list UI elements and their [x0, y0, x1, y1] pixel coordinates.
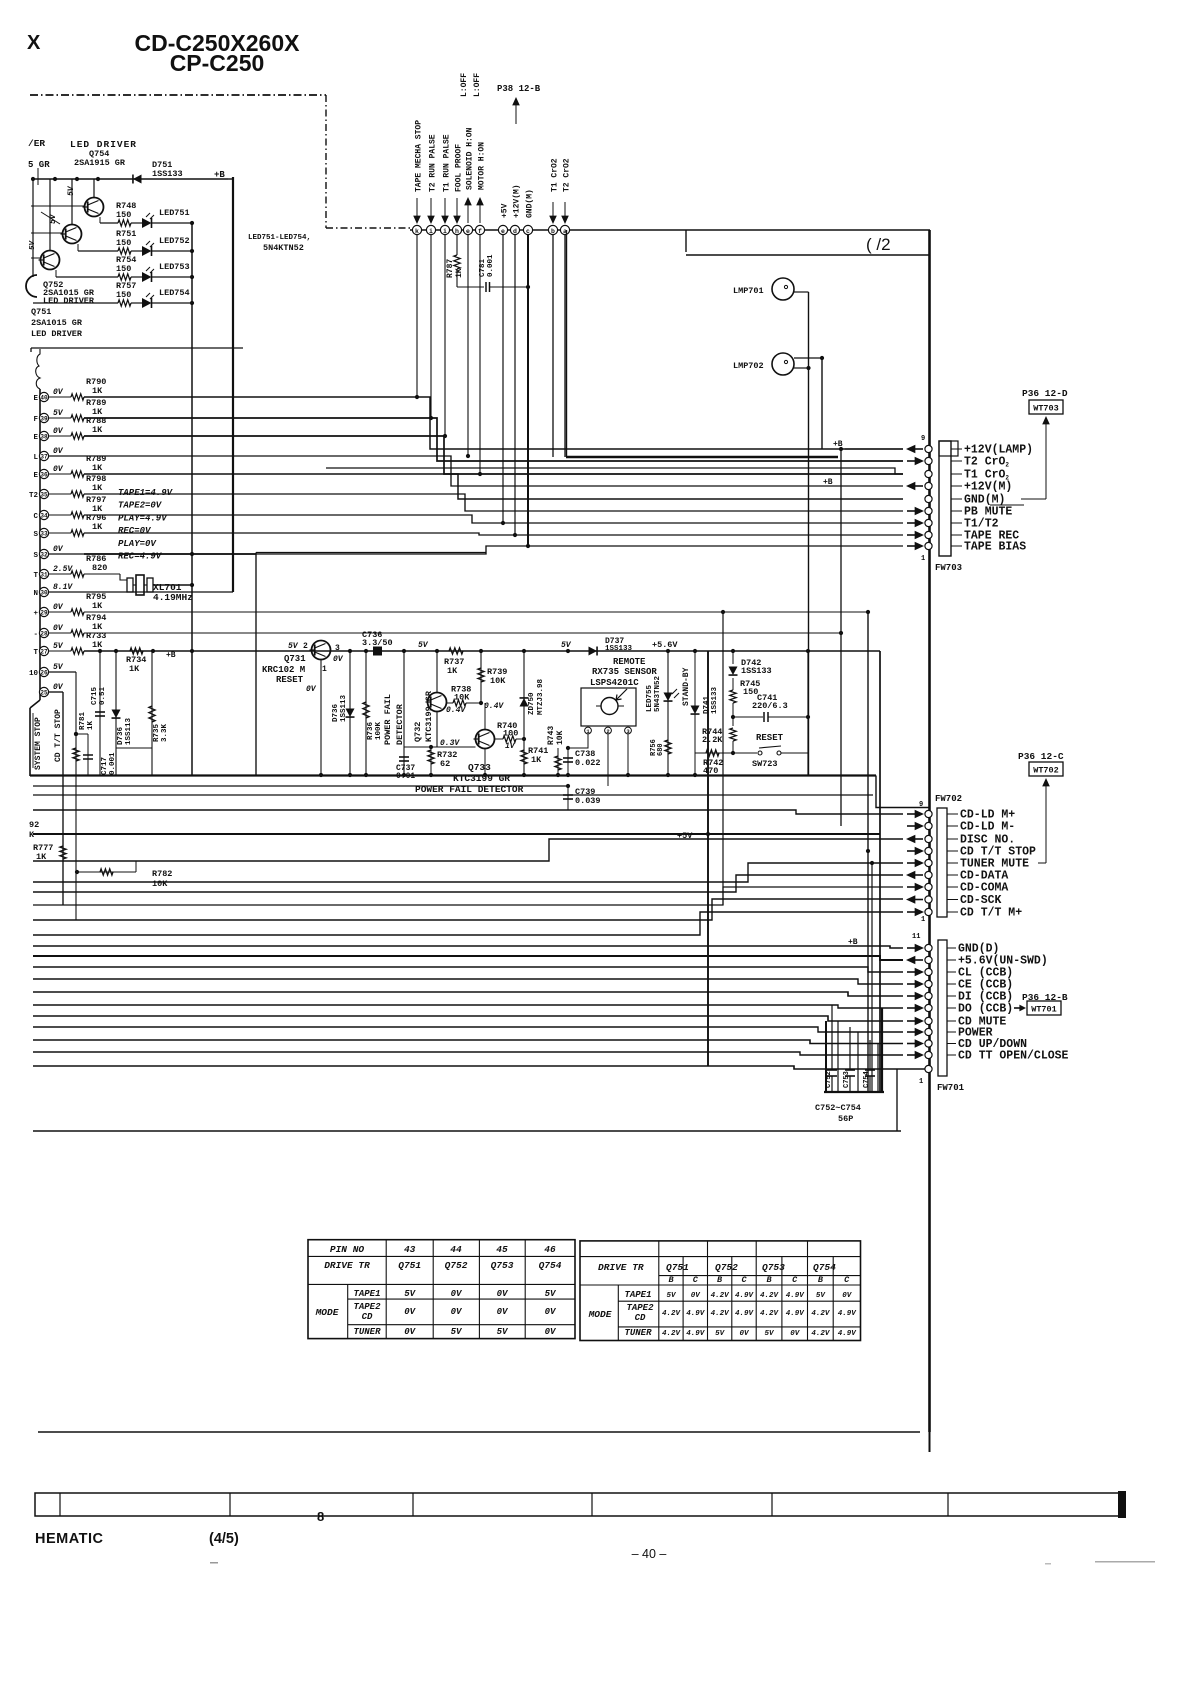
pin T1 RUN PALSE connector circle: [440, 225, 449, 234]
svg-text:P36 12-D: P36 12-D: [1022, 388, 1068, 399]
wire line y861 to FW702: [33, 839, 903, 861]
svg-text:LED754: LED754: [159, 288, 190, 298]
wire capacitor block bottom y1092: [824, 1091, 884, 1093]
svg-text:L:OFF: L:OFF: [460, 73, 469, 97]
svg-text:4.19MHz: 4.19MHz: [153, 592, 193, 603]
svg-text:150: 150: [116, 238, 131, 248]
svg-text:LED DRIVER: LED DRIVER: [31, 329, 83, 339]
wire pin26 drop: [74, 732, 78, 736]
wire top dash-dot boundary: [30, 94, 326, 96]
svg-text:0.001: 0.001: [487, 254, 495, 277]
svg-text:0V: 0V: [545, 1327, 557, 1337]
svg-text:P38 12-B: P38 12-B: [497, 84, 541, 94]
svg-text:0V: 0V: [53, 624, 64, 633]
svg-text:5V: 5V: [715, 1330, 726, 1338]
svg-text:1K: 1K: [92, 483, 103, 493]
svg-text:LSPS4201C: LSPS4201C: [590, 678, 639, 688]
svg-text:5V: 5V: [497, 1327, 509, 1337]
svg-text:R787: R787: [446, 259, 455, 278]
wire +5V line y834 thick: [33, 833, 880, 835]
wire LED754 to collector bus: [152, 302, 192, 304]
connector FW702 body: [937, 808, 947, 917]
svg-text:C: C: [844, 1275, 850, 1285]
svg-text:0V: 0V: [53, 447, 64, 456]
header box ( /2: [685, 230, 687, 252]
wire sensor pin2: [607, 734, 609, 786]
svg-text:+: +: [33, 610, 38, 618]
resistor R798 1K: [49, 493, 71, 495]
resistor R795 1K: [49, 611, 71, 613]
pin 27 IC: [39, 646, 48, 655]
svg-text:0V: 0V: [53, 388, 64, 397]
table transistor-voltage right: [580, 1241, 861, 1341]
svg-text:R782: R782: [152, 869, 172, 879]
resistor R733 1K: [49, 650, 71, 652]
wire +B vertical x233: [232, 177, 234, 592]
transistor Q752 2SA1015: [49, 179, 51, 250]
svg-text:1K: 1K: [129, 664, 140, 674]
wire +B rail y179: [32, 178, 228, 180]
svg-text:100K: 100K: [375, 721, 383, 740]
wire bus y905: [33, 887, 903, 905]
svg-text:0V: 0V: [53, 683, 64, 692]
LED755 5N43TN52: [667, 651, 669, 775]
svg-text:1: 1: [919, 1078, 923, 1086]
resistor R737 1K: [449, 648, 463, 654]
pin +12V(M) connector circle: [510, 225, 519, 234]
svg-text:Q752: Q752: [715, 1262, 738, 1273]
svg-text:0V: 0V: [333, 655, 344, 664]
svg-text:1K: 1K: [92, 522, 103, 532]
pin FW702 CD-SCK: [925, 896, 932, 903]
diode D742 1SS133: [732, 651, 734, 664]
svg-text:29: 29: [40, 610, 48, 617]
wire bus y967: [33, 967, 903, 972]
svg-text:0V: 0V: [739, 1330, 750, 1338]
resistor R741 1K: [521, 750, 527, 764]
wire bus y892: [33, 875, 903, 892]
svg-text:CD T/T STOP: CD T/T STOP: [54, 709, 63, 762]
svg-text:0V: 0V: [53, 603, 64, 612]
pin FW703-2 TAPE REC: [925, 531, 932, 538]
pin FW703-9 +12V(LAMP): [925, 445, 932, 452]
wire Q731 emitter drop: [320, 660, 322, 775]
svg-text:i: i: [429, 228, 433, 235]
svg-text:C753: C753: [843, 1071, 851, 1088]
svg-text:C: C: [741, 1275, 747, 1285]
svg-text:820: 820: [92, 563, 107, 573]
wire vertical x256: [255, 553, 257, 776]
wire IC pin row y397 to FW703 row y449: [84, 397, 903, 449]
svg-text:Q754: Q754: [539, 1260, 562, 1271]
svg-text:DRIVE TR: DRIVE TR: [324, 1260, 370, 1271]
sensor pins 1 2 3: [585, 727, 592, 734]
wire T1 RUN PALSE drop x445: [444, 235, 446, 436]
LED LED754: [131, 302, 142, 304]
svg-text:B: B: [766, 1275, 771, 1285]
svg-text:4.9V: 4.9V: [735, 1310, 755, 1318]
svg-text:4.2V: 4.2V: [662, 1330, 682, 1338]
svg-text:0.4V: 0.4V: [446, 706, 466, 715]
svg-text:0V: 0V: [691, 1292, 702, 1300]
pin FW702 TUNER MUTE: [925, 859, 932, 866]
svg-text:TAPE2=0V: TAPE2=0V: [118, 501, 163, 511]
svg-text:c: c: [526, 228, 530, 235]
svg-text:C: C: [693, 1275, 699, 1285]
svg-text:0V: 0V: [53, 465, 64, 474]
resistor R734 1K: [130, 648, 143, 654]
pin 40 IC: [39, 392, 48, 401]
pin 30 IC: [39, 587, 48, 596]
svg-text:Q753: Q753: [762, 1262, 785, 1273]
capacitor C781 0.001: [457, 286, 484, 288]
pin FW702 CD-LD M+: [925, 810, 932, 817]
svg-text:1K: 1K: [87, 720, 95, 730]
wire SOLENOID drop x468: [467, 235, 469, 456]
svg-text:C752: C752: [825, 1071, 833, 1088]
svg-text:38: 38: [40, 434, 48, 441]
signal arrow T2 RUN PALSE: [430, 198, 432, 220]
wire pointer to Q753 base: [41, 212, 60, 224]
svg-text:CD T/T M+: CD T/T M+: [960, 907, 1022, 920]
resistor R789 1K: [49, 473, 71, 475]
wire corner x897: [896, 1069, 898, 1131]
svg-text:FOOL PROOF: FOOL PROOF: [455, 144, 464, 192]
wire main right spine x930: [928, 230, 931, 1432]
svg-text:1: 1: [921, 916, 925, 924]
pin FW702 CD T/T STOP: [925, 847, 932, 854]
wire lamp drop x822: [821, 358, 823, 449]
svg-text:TAPE2: TAPE2: [353, 1302, 381, 1312]
wire pin 25: [49, 691, 63, 693]
pin TAPE MECHA STOP connector circle: [412, 225, 421, 234]
capacitor block C752-C754: [825, 1021, 827, 1092]
svg-text:D736: D736: [332, 703, 340, 722]
pin 25 IC: [39, 687, 48, 696]
svg-text:S: S: [33, 552, 38, 560]
svg-text:LED751-LED754,: LED751-LED754,: [248, 234, 311, 242]
svg-text:35: 35: [40, 492, 48, 499]
svg-text:LED751: LED751: [159, 208, 190, 218]
wire bus y946: [33, 946, 903, 948]
svg-text:36: 36: [40, 472, 48, 479]
pin 34 IC: [39, 510, 48, 519]
svg-text:b: b: [551, 228, 555, 235]
svg-text:+B: +B: [166, 651, 176, 660]
svg-text:CD TT OPEN/CLOSE: CD TT OPEN/CLOSE: [958, 1050, 1069, 1063]
svg-text:( /2: ( /2: [866, 235, 891, 254]
svg-text:k: k: [415, 228, 419, 235]
pin FW701 CL (CCB): [925, 968, 932, 975]
transistor Q732: [428, 693, 447, 712]
svg-text:Q732: Q732: [413, 722, 423, 742]
lamp LMP702: [772, 353, 794, 375]
wire pin 30: [49, 591, 84, 593]
connector FW703 body: [939, 441, 951, 556]
tape deck box inner bottom line: [326, 468, 903, 474]
wire lamp drop x808.5 long: [808, 292, 810, 775]
svg-text:+B: +B: [848, 938, 858, 947]
svg-text:0.4V: 0.4V: [484, 702, 504, 711]
svg-text:5V: 5V: [764, 1330, 775, 1338]
pin MOTOR H:ON connector circle: [475, 225, 484, 234]
svg-text:B: B: [717, 1275, 722, 1285]
svg-text:LMP701: LMP701: [733, 286, 764, 296]
connector FW701 body: [938, 940, 947, 1076]
svg-text:0V: 0V: [790, 1330, 801, 1338]
svg-text:S: S: [33, 531, 38, 539]
wire T2 RUN PALSE drop x431: [430, 235, 432, 418]
svg-text:0.022: 0.022: [575, 758, 601, 768]
zener ZD750 MTZJ3.98: [523, 651, 525, 775]
svg-text:C: C: [33, 513, 38, 521]
wire IC pin row y418 to FW703 row y461: [84, 418, 903, 461]
svg-text:37: 37: [40, 454, 48, 461]
pin 32 IC: [39, 549, 48, 558]
svg-text:4.9V: 4.9V: [838, 1330, 858, 1338]
pin FW702 CD-LD M-: [925, 822, 932, 829]
svg-text:CD-COMA: CD-COMA: [960, 882, 1008, 895]
svg-text:TAPE1: TAPE1: [353, 1289, 380, 1299]
svg-text:+B: +B: [823, 478, 833, 487]
resistor R781 1K + capacitor C717 0.001: [75, 672, 77, 775]
wire drop x723: [722, 612, 724, 905]
pin 28 IC: [39, 628, 48, 637]
svg-text:4.9V: 4.9V: [838, 1310, 858, 1318]
svg-text:1K: 1K: [92, 640, 103, 650]
svg-text:PLAY=0V: PLAY=0V: [118, 539, 157, 549]
capacitor C715 0.51: [99, 651, 101, 775]
svg-text:5V: 5V: [666, 1292, 677, 1300]
wire drop x841: [840, 449, 842, 826]
svg-text:2SA1915 GR: 2SA1915 GR: [74, 158, 126, 168]
pin FW701 CD MUTE: [925, 1017, 932, 1024]
svg-text:CP-C250: CP-C250: [170, 50, 265, 76]
svg-text:5V: 5V: [404, 1289, 416, 1299]
resistor R742 470: [706, 750, 719, 756]
svg-text:9: 9: [921, 435, 925, 443]
wire IC pin row y554 to FW703 row y546: [84, 546, 903, 554]
diode D751 1SS133: [133, 175, 142, 184]
svg-text:L: L: [33, 454, 38, 462]
wire bus y1016: [33, 1016, 903, 1021]
resistor R788 1K: [49, 435, 71, 437]
svg-text:C752~C754: C752~C754: [815, 1103, 861, 1113]
resistor R786 820: [49, 573, 71, 575]
svg-text:F: F: [33, 416, 38, 424]
svg-text:WT703: WT703: [1033, 404, 1059, 414]
svg-text:Q751: Q751: [31, 307, 51, 317]
resistor R787 1K on FOOL PROOF drop: [456, 235, 458, 255]
svg-text:5V: 5V: [53, 409, 64, 418]
resistor R782 10K: [77, 871, 136, 873]
svg-text:0.51: 0.51: [99, 686, 107, 705]
svg-text:4.2V: 4.2V: [811, 1330, 831, 1338]
wire drop x880: [879, 651, 881, 1092]
wire bus y956: [33, 956, 903, 960]
svg-text:L:OFF: L:OFF: [473, 73, 482, 97]
svg-text:3.3K: 3.3K: [161, 723, 169, 742]
svg-text:2.2K: 2.2K: [702, 735, 723, 745]
svg-text:FW702: FW702: [935, 794, 962, 804]
diode D737 1SS133 on rail: [589, 647, 598, 656]
svg-text:32: 32: [40, 552, 48, 559]
resistor R790 1K: [49, 396, 71, 398]
svg-text:1SS113: 1SS113: [340, 694, 348, 722]
wire +12V(M) drop x515: [514, 235, 516, 535]
svg-text:TAPE MECHA STOP: TAPE MECHA STOP: [415, 120, 424, 192]
svg-text:2: 2: [303, 642, 308, 651]
wire pin26 drop to bus: [75, 775, 77, 920]
svg-text:0V: 0V: [404, 1327, 416, 1337]
wire sub-branch y748: [116, 747, 152, 749]
svg-text:+B: +B: [214, 170, 225, 180]
svg-text:MOTOR H:ON: MOTOR H:ON: [478, 142, 487, 190]
svg-text:KRC102 M: KRC102 M: [262, 665, 305, 675]
table pin-voltage left: [308, 1240, 575, 1339]
svg-text:39: 39: [40, 416, 48, 423]
svg-text:40: 40: [40, 395, 48, 402]
pin T2 CrO2 connector circle: [560, 225, 569, 234]
svg-text:5V: 5V: [288, 642, 299, 651]
resistor R745 150: [732, 678, 734, 690]
wire pin29 row y612 long: [84, 611, 868, 613]
resistor R756 680: [665, 740, 671, 754]
wire pin30 to +B vertical: [84, 591, 233, 593]
wire +5V drop x503: [502, 235, 504, 523]
pin T1 CrO2 connector circle: [548, 225, 557, 234]
svg-text:1SS133: 1SS133: [152, 169, 183, 179]
svg-text:– 40 –: – 40 –: [632, 1547, 667, 1561]
svg-text:MODE: MODE: [588, 1309, 612, 1320]
pin 31 IC: [39, 569, 48, 578]
resistor R744 2.2K: [730, 728, 736, 741]
signal arrow TAPE MECHA STOP: [416, 198, 418, 220]
capacitor C738 0.022: [567, 748, 569, 775]
svg-text:E: E: [33, 395, 38, 403]
resistor R732 62: [430, 651, 432, 775]
pin FOOL PROOF connector circle: [452, 225, 461, 234]
svg-text:4.2V: 4.2V: [811, 1310, 831, 1318]
diode D735 1SS133: [115, 651, 117, 775]
resistor R736 100K: [365, 651, 367, 775]
wire lower line y1131: [33, 1130, 901, 1132]
svg-text:P36 12-C: P36 12-C: [1018, 751, 1064, 762]
wire line y810: [33, 810, 903, 814]
svg-text:4.9V: 4.9V: [786, 1310, 806, 1318]
svg-text:4.2V: 4.2V: [711, 1310, 731, 1318]
svg-text:1K: 1K: [455, 268, 464, 278]
transistor Q731 KRC102 reset: [312, 641, 331, 660]
svg-text:5V: 5V: [816, 1292, 827, 1300]
wire GND(M) drop x528: [527, 235, 529, 546]
pin FW703-7 T1 CrO2: [925, 470, 932, 477]
signal arrow MOTOR H:ON: [479, 201, 481, 223]
svg-text:FW701: FW701: [937, 1083, 965, 1093]
svg-text:1SS133: 1SS133: [741, 666, 772, 676]
capacitor C753: [849, 1027, 851, 1070]
svg-text:25: 25: [40, 690, 48, 697]
pin 39 IC: [39, 413, 48, 422]
pin FW702 CD T/T M+: [925, 908, 932, 915]
pin 38 IC: [39, 431, 48, 440]
svg-text:1K: 1K: [92, 601, 103, 611]
svg-text:TAPE2: TAPE2: [626, 1303, 654, 1313]
svg-text:HEMATIC: HEMATIC: [35, 1531, 104, 1547]
svg-text:C781: C781: [479, 258, 487, 277]
wire 5V rail y651: [84, 650, 880, 652]
svg-text:f: f: [478, 228, 482, 235]
svg-text:FW703: FW703: [935, 563, 962, 573]
svg-text:TAPE1: TAPE1: [624, 1290, 651, 1300]
svg-text:5V: 5V: [451, 1327, 463, 1337]
svg-text:+12V(M): +12V(M): [513, 184, 522, 218]
svg-text:STAND-BY: STAND-BY: [682, 667, 691, 706]
svg-text:1V: 1V: [505, 742, 516, 751]
svg-text:10K: 10K: [556, 730, 565, 745]
svg-text:0V: 0V: [497, 1289, 509, 1299]
svg-text:+5V: +5V: [501, 203, 510, 218]
svg-text:4.2V: 4.2V: [662, 1310, 682, 1318]
wire transistor bases: [31, 205, 84, 207]
svg-text:5V: 5V: [545, 1289, 557, 1299]
resistor R743 10K: [557, 748, 559, 775]
svg-text:MTZJ3.98: MTZJ3.98: [537, 678, 545, 715]
svg-text:1K: 1K: [92, 386, 103, 396]
wire row y552 from x256: [256, 552, 486, 554]
svg-text:D741: D741: [703, 695, 711, 714]
wire top pin row line y230: [410, 229, 930, 231]
svg-text:T2 CrO2: T2 CrO2: [964, 456, 1009, 469]
svg-text:0V: 0V: [53, 427, 64, 436]
svg-text:8.1V: 8.1V: [53, 583, 73, 592]
pin FW701 DI (CCB): [925, 992, 932, 999]
svg-text:C717: C717: [101, 757, 109, 775]
svg-text:1K: 1K: [92, 425, 103, 435]
svg-text:0V: 0V: [497, 1307, 509, 1317]
svg-text:SW723: SW723: [752, 759, 778, 769]
LED LED752: [131, 250, 142, 252]
svg-text:B: B: [818, 1275, 823, 1285]
svg-text:GND(M): GND(M): [526, 189, 535, 218]
pin FW703-5 GND(M): [925, 495, 932, 502]
svg-text:REMOTE: REMOTE: [613, 657, 646, 667]
svg-text:5V: 5V: [418, 641, 429, 650]
svg-text:Q753: Q753: [491, 1260, 514, 1271]
svg-text:CD-SCK: CD-SCK: [960, 894, 1002, 907]
pin FW701 GND(D): [925, 944, 932, 951]
pin FW701 CD TT OPEN/CLOSE: [925, 1051, 932, 1058]
svg-text:SYSTEM STOP: SYSTEM STOP: [34, 717, 43, 770]
svg-text:27: 27: [40, 649, 48, 656]
node rail dots: [31, 177, 35, 181]
wire drop x868: [867, 612, 869, 1092]
svg-text:43: 43: [404, 1244, 416, 1255]
svg-text:5N4KTN52: 5N4KTN52: [263, 243, 304, 253]
svg-text:0.3V: 0.3V: [440, 739, 460, 748]
svg-text:E: E: [33, 472, 38, 480]
tape deck box bottom thick: [566, 456, 838, 459]
resistor R740 100: [494, 738, 503, 740]
svg-text:E: E: [33, 434, 38, 442]
svg-text:CD: CD: [635, 1313, 646, 1323]
resistor R796 1K: [49, 532, 71, 534]
signal arrow T1 CrO2: [552, 202, 554, 220]
wire bus y1027: [33, 1027, 903, 1032]
svg-text:TAPE1=4.9V: TAPE1=4.9V: [118, 488, 174, 498]
svg-text:28: 28: [40, 631, 48, 638]
footer band: [35, 1493, 1122, 1516]
